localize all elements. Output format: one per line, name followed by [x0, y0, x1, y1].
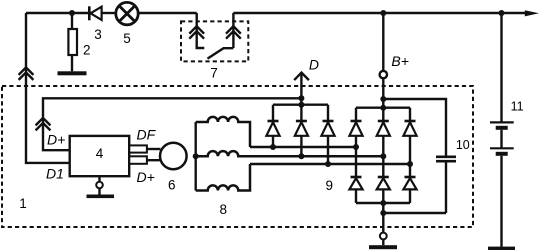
svg-text:5: 5 [123, 31, 131, 46]
junction dot B+ column on top bus [380, 10, 386, 16]
wire capacitor top branch [383, 99, 446, 156]
battery cell 2 negative plate [496, 152, 508, 156]
brush pin DF [129, 145, 147, 152]
diode 3 [89, 6, 101, 20]
stator 8 neutral rail [194, 122, 196, 191]
svg-text:D1: D1 [46, 166, 64, 182]
wire rectifier ground stem [382, 203, 384, 232]
svg-text:D+: D+ [137, 169, 155, 185]
ground bar below resistor 2 [58, 71, 87, 75]
wire left branch to regulator D1 [26, 13, 70, 163]
arrow to loads [525, 10, 539, 16]
diode trio D1c [321, 121, 334, 164]
svg-text:D: D [309, 57, 319, 73]
connector chevron switch left [189, 26, 204, 39]
dashed box 1 alternator [2, 86, 473, 227]
svg-text:D+: D+ [47, 132, 65, 148]
junction dot phase2 rectifier [380, 153, 386, 159]
battery ground bar [488, 247, 515, 250]
capacitor 10 [436, 157, 456, 161]
connector chevron switch right [226, 26, 241, 39]
svg-text:B+: B+ [391, 53, 409, 69]
svg-text:6: 6 [168, 178, 176, 193]
stator winding top [196, 117, 250, 147]
ground under regulator 4 stem [98, 176, 100, 182]
junction dot resistor tap [69, 10, 75, 16]
rectifier diode bottom b [377, 177, 390, 203]
junction dot phase3 trio [325, 161, 331, 167]
wire pin DF to rotor [147, 148, 161, 150]
svg-text:DF: DF [137, 126, 157, 142]
wire rectifier 9 top bus [356, 108, 410, 121]
brush pin D+ [129, 156, 147, 164]
svg-text:4: 4 [96, 146, 104, 161]
svg-text:7: 7 [210, 66, 218, 81]
ground bar under regulator 4 [87, 195, 115, 199]
switch 7 blade [208, 48, 234, 58]
wire top bus right segment [233, 12, 525, 14]
battery inter-cell wire [500, 130, 502, 149]
battery wire bottom [500, 156, 502, 247]
svg-text:9: 9 [325, 178, 333, 193]
svg-text:1: 1 [19, 196, 27, 211]
junction dot capacitor branch [380, 96, 386, 102]
diode trio D1b [295, 121, 308, 156]
phase wire 1 [250, 146, 356, 148]
wire diode trio cathode bus [273, 105, 328, 121]
battery cell 1 positive plate [490, 121, 514, 123]
phase wire 3 [250, 163, 410, 165]
rectifier ground bar [369, 245, 397, 249]
rectifier diode bottom c [403, 177, 416, 203]
lamp 5 [116, 2, 138, 24]
rectifier diode top c [403, 121, 416, 177]
junction dot phase2 trio [298, 153, 304, 159]
wire pin D+ to rotor [147, 159, 161, 161]
rectifier ground circle [380, 233, 387, 240]
wire lamp 5 to switch box 7 [139, 12, 197, 14]
ground under regulator 4 lead [98, 188, 100, 194]
svg-text:10: 10 [456, 138, 470, 152]
rectifier diode top a [349, 121, 362, 177]
rectifier diode bottom a [349, 177, 362, 203]
junction dot D node on trio bus [298, 102, 304, 108]
diode trio D1a [266, 121, 279, 147]
B+ terminal circle [380, 71, 387, 78]
junction dot rectifier bus [380, 105, 386, 111]
wire B+ drop to terminal [382, 13, 384, 71]
regulator 4 box [70, 136, 130, 176]
battery cell 2 positive plate [490, 147, 514, 149]
battery 11 wire top [500, 13, 502, 122]
junction dot ground bus [380, 200, 386, 206]
rotor 6 [160, 143, 187, 170]
connector chevron on left branch [19, 67, 34, 80]
svg-text:2: 2 [83, 43, 91, 58]
connector chevron on D+ sense line [36, 118, 51, 130]
wire regulator D+ sense line [43, 98, 301, 150]
wire diode 3 to lamp 5 [102, 12, 115, 14]
svg-text:8: 8 [220, 202, 228, 217]
wire capacitor bottom branch [445, 162, 447, 213]
rectifier diode top b [377, 121, 390, 177]
ground under regulator 4 circle [96, 182, 103, 189]
rectifier ground lead [382, 239, 384, 245]
dashed box 7 ignition switch [181, 21, 248, 61]
wire B+ terminal into rectifier [382, 78, 384, 121]
D output arrow [294, 73, 309, 121]
battery cell 1 negative plate [496, 126, 508, 130]
resistor 2 [68, 13, 77, 71]
junction dot stator rail [193, 153, 199, 159]
junction dot capacitor ground [380, 210, 386, 216]
svg-text:11: 11 [511, 100, 524, 114]
wire ground link to capacitor [383, 212, 446, 214]
junction dot battery column on top bus [499, 10, 505, 16]
junction dot phase1 rectifier [353, 144, 359, 150]
junction dot phase1 trio [270, 144, 276, 150]
switch 7 left lead [197, 13, 205, 48]
switch 7 right lead [232, 13, 234, 48]
wire top bus left segment [26, 12, 89, 14]
svg-text:3: 3 [94, 27, 102, 42]
wire rectifier bottom bus [356, 202, 410, 204]
junction dot phase3 rectifier [407, 161, 413, 167]
stator winding middle [196, 151, 384, 156]
stator winding bottom [196, 164, 250, 191]
junction dot D node upper [298, 95, 304, 101]
